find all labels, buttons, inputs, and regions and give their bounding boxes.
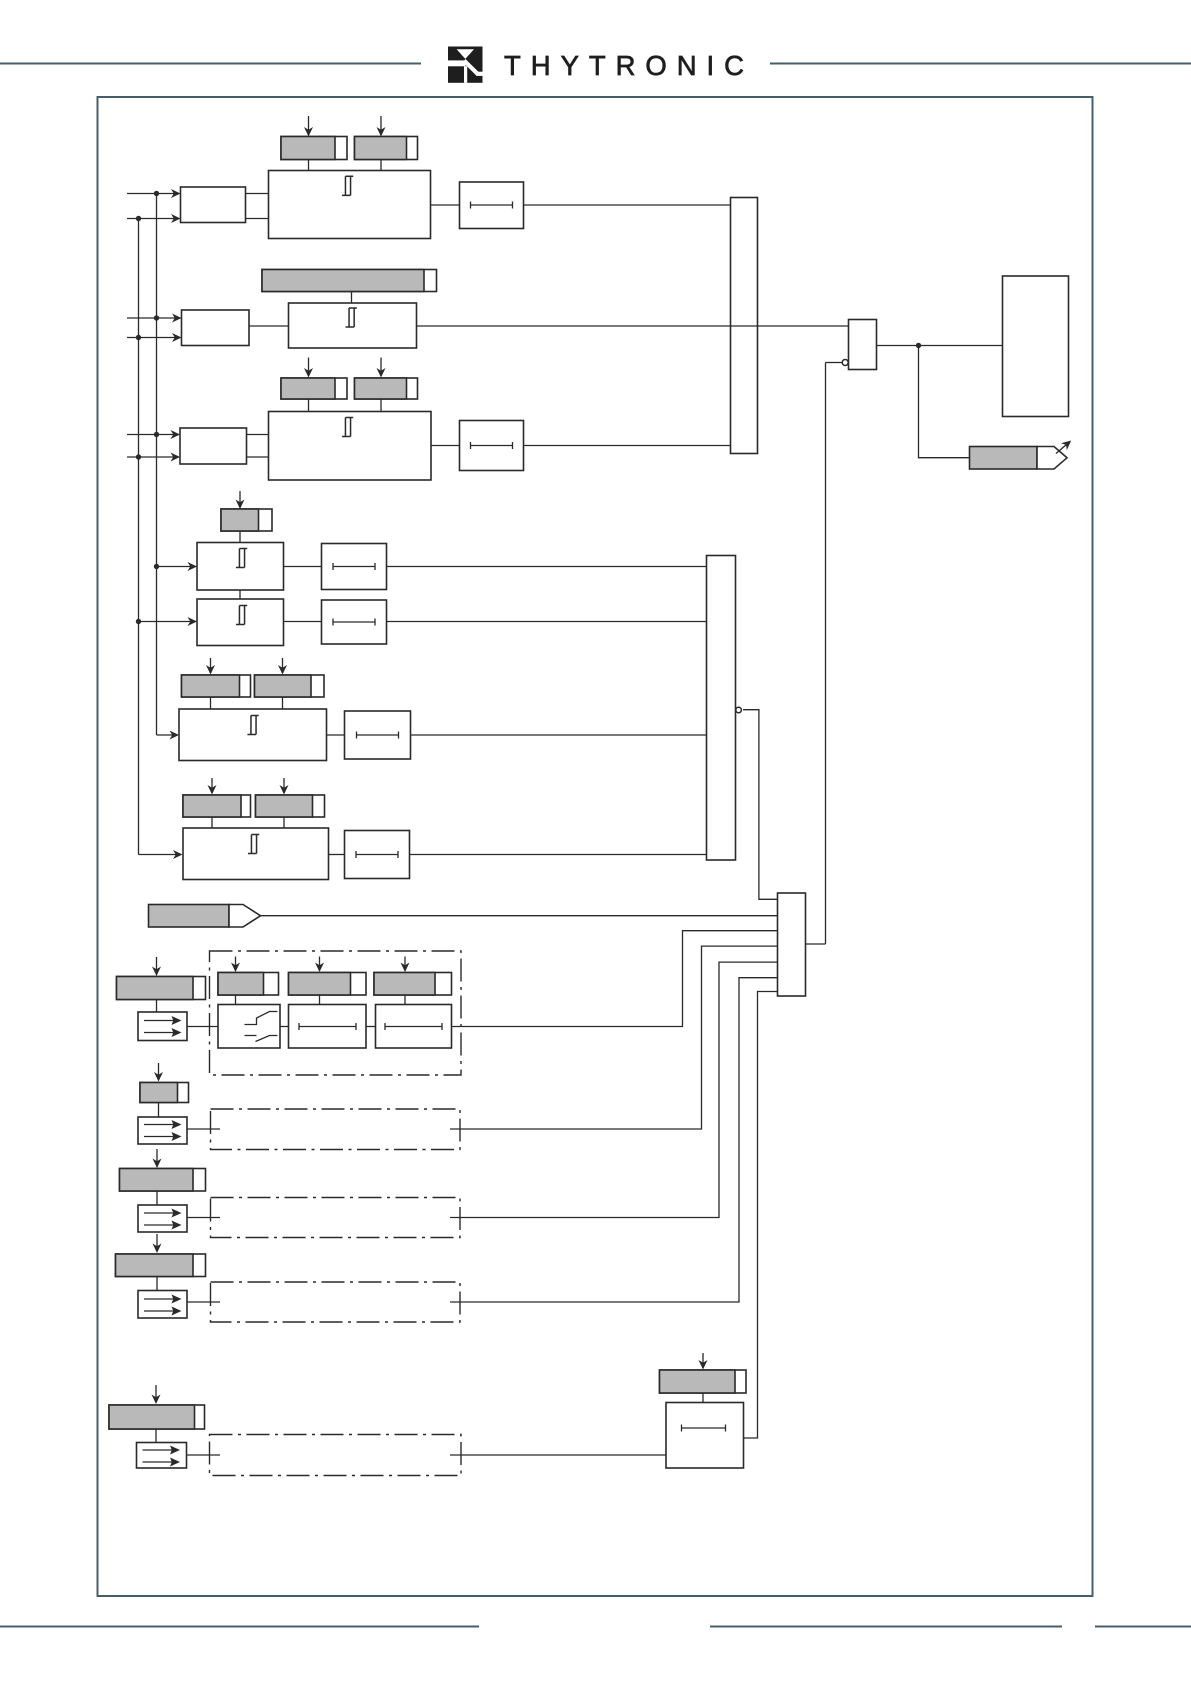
svg-text:THYTRONIC: THYTRONIC [504, 50, 744, 81]
